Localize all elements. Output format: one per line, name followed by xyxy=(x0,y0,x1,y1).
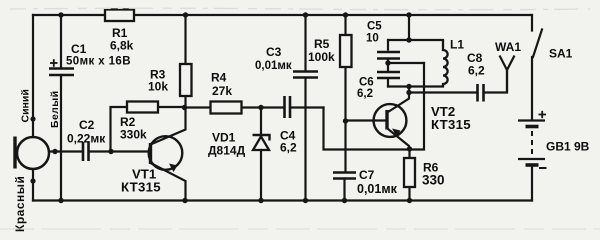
wire R2 left branch down to base node xyxy=(111,107,128,152)
node R3 top xyxy=(183,12,188,17)
capacitor C2 plates xyxy=(83,142,89,161)
battery GB1 dashed middle xyxy=(531,131,533,156)
svg-text:КТ315: КТ315 xyxy=(431,117,471,132)
wire SA1 to battery plus xyxy=(531,57,533,120)
battery GB1 cell1 short plate xyxy=(526,125,539,129)
capacitor C1 plates (polar) xyxy=(49,69,74,76)
wire R6 top lead xyxy=(408,149,410,158)
label R3 xyxy=(148,68,168,94)
capacitor C3 plates xyxy=(293,72,318,78)
wire R4 to C4 xyxy=(242,106,284,108)
wire R6 bottom lead xyxy=(408,187,410,201)
wire top rail main segment xyxy=(134,14,532,16)
label GB1 xyxy=(546,140,590,154)
zener diode VD1 cathode bar with wing xyxy=(253,135,270,141)
wire blue mic lead down from rail xyxy=(32,15,34,137)
node VT2 emitter junction xyxy=(407,146,412,151)
scan artifact top streak xyxy=(10,8,590,10)
transistor VT2 circle xyxy=(374,104,407,137)
label VT2 xyxy=(431,104,471,132)
battery GB1 cell2 short plate xyxy=(526,163,539,167)
wire C6 bottom to L1 bottom xyxy=(388,85,443,87)
battery GB1 cell2 long plate xyxy=(518,158,545,160)
capacitor C7 plates xyxy=(333,173,356,179)
capacitor C6 plates xyxy=(377,72,400,78)
zener diode VD1 triangle xyxy=(253,137,269,151)
node collector C8 junction xyxy=(406,90,411,95)
wire C8 to antenna xyxy=(485,70,508,93)
svg-text:C6: C6 xyxy=(359,77,374,89)
wire R3 bottom lead xyxy=(184,96,186,108)
svg-text:6,2: 6,2 xyxy=(468,64,485,78)
svg-text:C1: C1 xyxy=(71,42,87,56)
capacitor C4 plates xyxy=(285,96,291,118)
resistor R3 body xyxy=(180,64,192,96)
svg-text:SA1: SA1 xyxy=(549,47,573,61)
wire SA1 stub from rail xyxy=(531,15,533,31)
label R2 xyxy=(120,115,147,142)
node red wire mark xyxy=(30,178,35,183)
node mic output xyxy=(52,149,57,154)
svg-text:6,2: 6,2 xyxy=(280,141,297,155)
node collector L1 junction xyxy=(406,84,411,89)
resistor R1 body xyxy=(105,10,134,22)
wire collector node to C8 xyxy=(409,91,477,93)
wire R5 bottom lead down to C7 xyxy=(344,67,346,172)
node VT1 emitter rail xyxy=(182,198,187,203)
transistor VT1 base bar xyxy=(149,143,152,164)
label C1 xyxy=(66,42,131,68)
label C3 xyxy=(255,45,292,72)
wire VT1 emitter xyxy=(152,164,186,201)
node R4 VD1 junction xyxy=(258,105,263,110)
wire node to R4 xyxy=(185,106,211,108)
svg-text:Красный: Красный xyxy=(13,176,27,232)
wire C5 top lead xyxy=(387,40,389,50)
wire VT2 collector xyxy=(388,87,409,113)
wire C3 upper lead xyxy=(304,15,306,71)
label Красный mic wire xyxy=(13,176,27,232)
label VD1 xyxy=(208,131,246,158)
node C5 C6 junction xyxy=(385,60,390,65)
wire VT1 collector xyxy=(152,108,186,145)
label SA1 xyxy=(549,47,573,61)
node C3 top xyxy=(303,12,308,17)
svg-text:R4: R4 xyxy=(211,71,227,85)
svg-text:КТ315: КТ315 xyxy=(121,180,161,195)
label VT1 xyxy=(121,167,161,195)
wire VD1 upper lead xyxy=(260,108,262,136)
battery plus sign xyxy=(539,111,547,118)
svg-text:0,01мк: 0,01мк xyxy=(357,182,398,196)
wire C1 upper lead xyxy=(60,15,62,68)
wire VT2 base xyxy=(346,119,386,121)
label L1 xyxy=(450,38,464,52)
svg-text:6,2: 6,2 xyxy=(357,88,373,100)
resistor R6 body xyxy=(404,158,415,187)
svg-text:0,22мк: 0,22мк xyxy=(67,132,106,146)
label R6 xyxy=(422,161,445,188)
wire C6 top lead xyxy=(387,63,389,71)
node tank node y40 xyxy=(406,37,411,42)
label R1 xyxy=(110,26,134,53)
svg-text:27k: 27k xyxy=(212,84,232,98)
label C5 xyxy=(366,21,382,45)
label Синий mic wire xyxy=(20,89,32,122)
wire C4 to corner xyxy=(290,106,324,108)
inductor L1 coil xyxy=(443,40,448,87)
label C4 xyxy=(280,129,297,155)
wire C5-C6 node to emitter branch xyxy=(388,62,424,64)
svg-text:L1: L1 xyxy=(450,38,464,52)
label R4 xyxy=(211,71,232,99)
svg-text:10: 10 xyxy=(366,33,379,45)
label R5 xyxy=(308,37,335,64)
label Белый mic wire xyxy=(49,91,61,128)
svg-text:330: 330 xyxy=(422,173,445,188)
wire rail to tank node xyxy=(408,15,410,40)
svg-text:10k: 10k xyxy=(148,80,168,94)
wire C6 bottom lead xyxy=(387,79,389,87)
label WA1 xyxy=(495,40,521,54)
label C6 xyxy=(357,77,374,101)
wire R3 top lead xyxy=(184,15,186,64)
node VT2 base junction xyxy=(343,118,348,123)
svg-text:WA1: WA1 xyxy=(495,40,521,54)
node tank top xyxy=(406,12,411,17)
antenna WA1 symbol xyxy=(500,56,515,93)
wire C5 bottom lead xyxy=(387,59,389,63)
node VT1 collector junction xyxy=(182,105,187,110)
svg-text:Синий: Синий xyxy=(20,89,32,122)
label C7 xyxy=(357,168,398,196)
wire C7 bottom lead xyxy=(343,179,345,201)
resistor R4 body xyxy=(211,102,242,114)
wire R5 top lead xyxy=(344,15,346,35)
resistor R2 body xyxy=(127,102,158,113)
svg-text:GB1 9В: GB1 9В xyxy=(546,140,590,154)
node C1 top xyxy=(58,12,63,17)
transistor VT2 emitter arrow xyxy=(392,129,401,137)
wire R2 right to collector node xyxy=(158,106,185,108)
wire mic output to C2 xyxy=(50,150,83,152)
wire tank top node horizontal xyxy=(388,39,443,41)
svg-text:330k: 330k xyxy=(120,128,147,142)
resistor R5 body xyxy=(340,35,352,67)
wire VD1 lower lead xyxy=(260,150,262,201)
battery minus sign xyxy=(539,167,547,169)
transistor VT1 emitter arrow xyxy=(169,164,178,173)
wire C3 lower lead to bottom rail xyxy=(304,78,306,201)
capacitor C5 plates xyxy=(377,52,400,59)
capacitor C1 plus sign xyxy=(50,59,58,67)
scan artifact bottom streak xyxy=(0,228,600,230)
svg-text:C7: C7 xyxy=(359,168,375,182)
node C7 bottom rail xyxy=(342,198,347,203)
wire red mic lead to bottom rail xyxy=(32,169,34,201)
svg-text:R5: R5 xyxy=(314,37,330,51)
node C1 bottom rail xyxy=(58,198,63,203)
svg-text:VD1: VD1 xyxy=(212,131,236,145)
svg-text:C5: C5 xyxy=(367,21,382,33)
svg-text:100k: 100k xyxy=(308,50,335,64)
microphone membrane bar xyxy=(13,137,16,169)
node C3 bottom rail xyxy=(303,198,308,203)
svg-text:0,01мк: 0,01мк xyxy=(255,60,292,72)
microphone BM capsule circle xyxy=(17,137,49,169)
wire VT2 emitter xyxy=(388,129,410,149)
svg-text:50мк x 16В: 50мк x 16В xyxy=(66,56,131,68)
battery GB1 cell1 long plate xyxy=(518,119,545,121)
node R6 bottom rail xyxy=(407,198,412,203)
wire stair from C4 down to VT2 emitter line xyxy=(324,63,425,150)
label C8 xyxy=(467,51,485,78)
wire top rail left segment xyxy=(33,14,105,16)
wire C1 lower lead to bottom rail xyxy=(60,76,62,201)
node R5 top xyxy=(343,12,348,17)
svg-text:C2: C2 xyxy=(79,118,95,132)
svg-text:6,8k: 6,8k xyxy=(110,39,134,53)
wire C2 to VT1 base xyxy=(90,150,150,152)
node VD1 bottom rail xyxy=(258,198,263,203)
wire SA1 lever xyxy=(533,30,542,58)
node blue wire mark xyxy=(30,116,35,121)
svg-text:Д814Д: Д814Д xyxy=(208,144,246,158)
wire battery minus to bottom rail xyxy=(531,166,533,201)
node R2 base junction xyxy=(108,149,113,154)
svg-text:C3: C3 xyxy=(266,45,282,59)
capacitor C8 plates xyxy=(478,84,484,102)
wire bottom ground rail xyxy=(33,199,532,201)
svg-text:Белый: Белый xyxy=(49,91,61,128)
transistor VT2 base bar xyxy=(385,110,388,130)
label C2 xyxy=(67,118,106,146)
transistor VT1 circle xyxy=(149,136,183,170)
